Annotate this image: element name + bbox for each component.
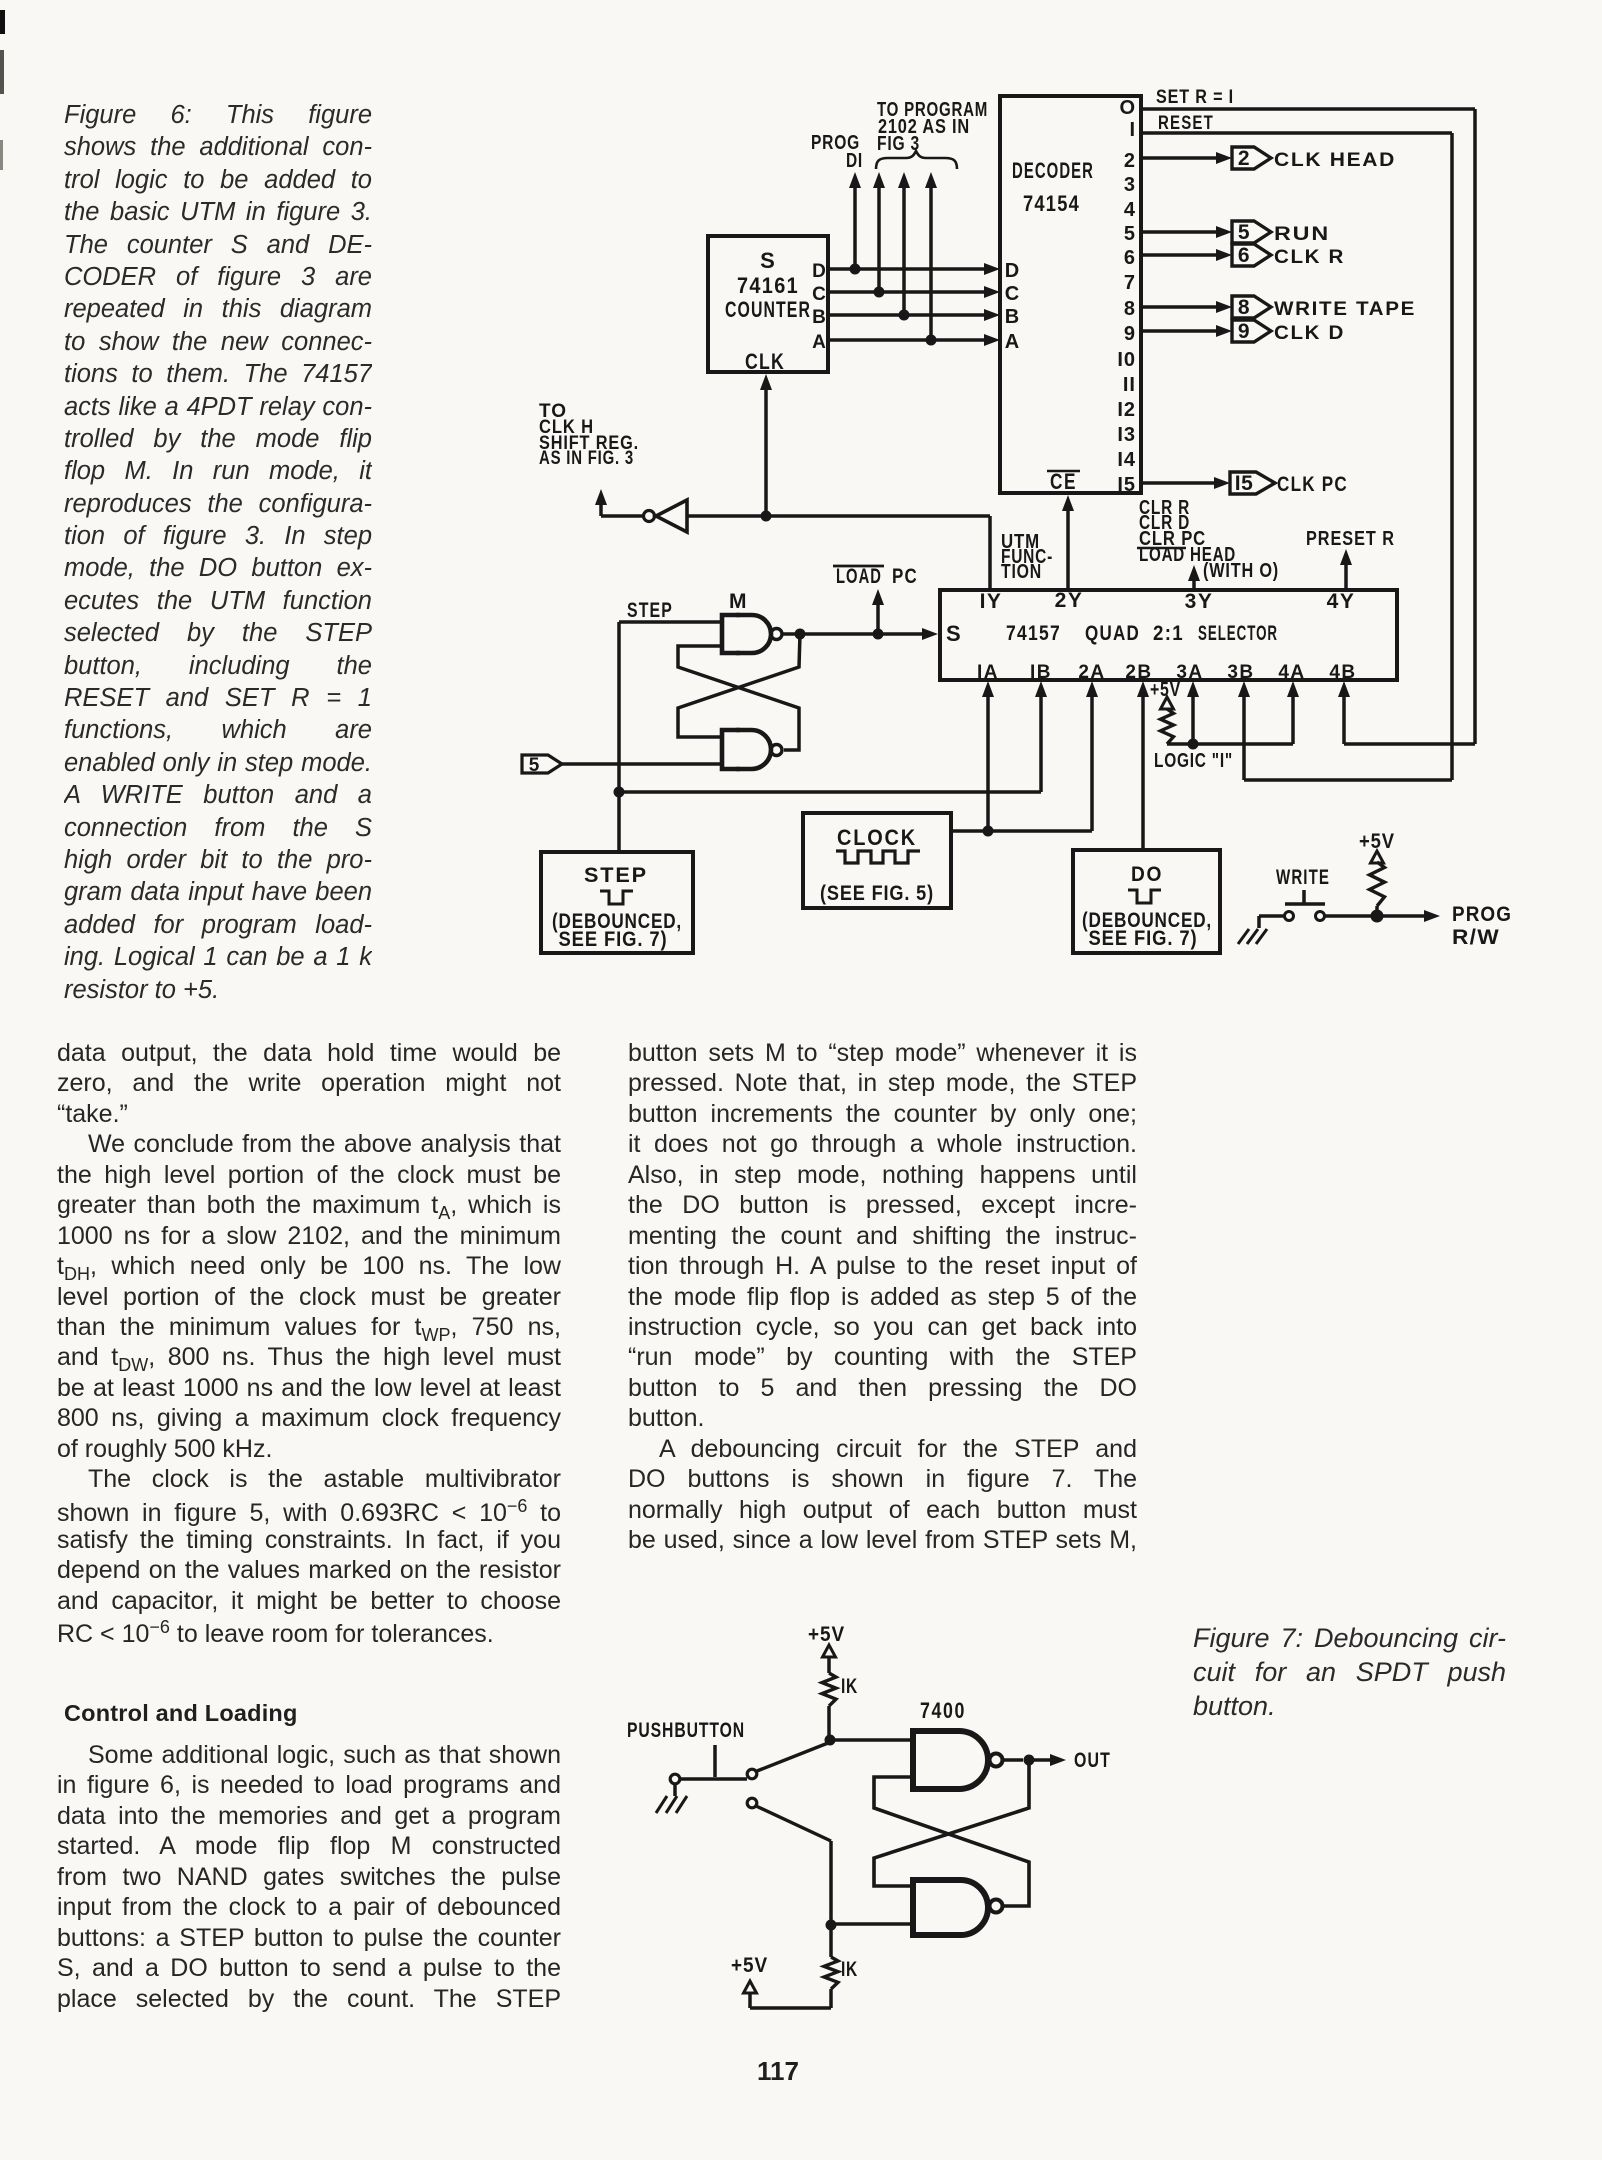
svg-text:I4: I4 <box>1117 449 1136 471</box>
svg-text:D: D <box>812 261 826 282</box>
svg-text:3B: 3B <box>1227 662 1254 683</box>
svg-text:+5V: +5V <box>731 1954 768 1977</box>
svg-text:M: M <box>729 590 747 613</box>
svg-text:7400: 7400 <box>920 1698 966 1723</box>
svg-text:2:1: 2:1 <box>1153 622 1184 645</box>
svg-text:IK: IK <box>841 1958 858 1981</box>
svg-text:(WITH O): (WITH O) <box>1203 560 1279 582</box>
svg-text:IB: IB <box>1030 662 1052 683</box>
svg-text:RUN: RUN <box>1274 224 1330 245</box>
svg-text:2Y: 2Y <box>1055 589 1084 612</box>
svg-text:SEE FIG. 7): SEE FIG. 7) <box>1089 927 1198 950</box>
svg-text:74161: 74161 <box>737 273 799 298</box>
svg-text:O: O <box>1119 97 1136 119</box>
svg-text:6: 6 <box>1124 247 1136 269</box>
svg-text:IK: IK <box>841 1675 858 1698</box>
svg-text:+5V: +5V <box>808 1623 845 1646</box>
svg-text:4A: 4A <box>1278 662 1305 683</box>
svg-text:A: A <box>812 332 826 353</box>
svg-text:I2: I2 <box>1117 399 1136 421</box>
svg-text:CLK R: CLK R <box>1274 247 1345 268</box>
svg-text:8: 8 <box>1124 298 1136 320</box>
svg-text:STEP: STEP <box>584 864 648 887</box>
svg-text:4: 4 <box>1124 199 1136 221</box>
svg-text:WRITE: WRITE <box>1276 866 1330 889</box>
svg-text:LOAD: LOAD <box>836 565 882 588</box>
svg-text:7: 7 <box>1124 272 1136 294</box>
svg-text:CE: CE <box>1050 469 1077 494</box>
svg-text:C: C <box>812 284 826 305</box>
svg-text:(SEE FIG. 5): (SEE FIG. 5) <box>820 882 934 905</box>
svg-text:I3: I3 <box>1117 424 1136 446</box>
svg-text:3Y: 3Y <box>1185 590 1214 613</box>
svg-text:CLOCK: CLOCK <box>837 825 917 850</box>
svg-text:DO: DO <box>1131 863 1163 886</box>
svg-text:PROG: PROG <box>1452 903 1512 926</box>
svg-text:8: 8 <box>1238 296 1250 319</box>
svg-text:IY: IY <box>980 590 1003 613</box>
svg-text:A: A <box>1005 331 1019 353</box>
svg-text:74154: 74154 <box>1023 191 1080 216</box>
svg-text:I5: I5 <box>1235 472 1254 495</box>
svg-text:2: 2 <box>1124 150 1136 172</box>
svg-text:QUAD: QUAD <box>1085 622 1140 645</box>
svg-text:6: 6 <box>1238 244 1250 267</box>
svg-text:LOGIC "I": LOGIC "I" <box>1154 750 1233 772</box>
svg-text:2B: 2B <box>1125 662 1152 683</box>
svg-text:PRESET R: PRESET R <box>1306 528 1395 550</box>
svg-text:OUT: OUT <box>1074 1749 1111 1772</box>
svg-text:COUNTER: COUNTER <box>725 297 811 322</box>
svg-text:+5V: +5V <box>1150 679 1181 701</box>
svg-text:STEP: STEP <box>627 599 673 622</box>
svg-text:CLK D: CLK D <box>1274 323 1345 344</box>
svg-text:I0: I0 <box>1117 349 1136 371</box>
svg-text:I5: I5 <box>1117 474 1136 496</box>
svg-text:R/W: R/W <box>1452 926 1500 949</box>
svg-text:S: S <box>946 621 961 646</box>
svg-text:IA: IA <box>977 662 999 683</box>
svg-text:SELECTOR: SELECTOR <box>1198 622 1278 645</box>
svg-text:S: S <box>760 248 776 273</box>
svg-text:5: 5 <box>1124 223 1136 245</box>
svg-text:II: II <box>1123 374 1136 396</box>
svg-text:74157: 74157 <box>1006 622 1061 645</box>
svg-text:SET R = I: SET R = I <box>1156 87 1234 108</box>
svg-text:RESET: RESET <box>1158 113 1214 134</box>
svg-text:AS IN FIG. 3: AS IN FIG. 3 <box>539 448 634 469</box>
svg-text:2: 2 <box>1238 147 1250 170</box>
svg-text:I: I <box>1129 119 1136 141</box>
svg-text:DECODER: DECODER <box>1012 158 1094 183</box>
svg-text:DI: DI <box>846 150 863 172</box>
svg-text:SEE FIG. 7): SEE FIG. 7) <box>559 928 668 951</box>
svg-text:B: B <box>1005 306 1019 328</box>
svg-text:PUSHBUTTON: PUSHBUTTON <box>627 1719 745 1742</box>
svg-text:PC: PC <box>892 565 918 588</box>
svg-text:CLK: CLK <box>745 349 785 374</box>
svg-text:9: 9 <box>1124 323 1136 345</box>
svg-text:5: 5 <box>529 755 540 776</box>
svg-text:CLK PC: CLK PC <box>1277 473 1348 496</box>
svg-text:B: B <box>812 307 826 328</box>
svg-text:4B: 4B <box>1329 662 1356 683</box>
svg-text:D: D <box>1005 260 1019 282</box>
svg-text:4Y: 4Y <box>1327 590 1356 613</box>
svg-text:2A: 2A <box>1078 662 1105 683</box>
svg-text:9: 9 <box>1238 320 1250 343</box>
svg-text:FIG 3: FIG 3 <box>877 133 920 155</box>
svg-text:C: C <box>1005 283 1019 305</box>
svg-text:CLK HEAD: CLK HEAD <box>1274 150 1396 171</box>
svg-text:WRITE TAPE: WRITE TAPE <box>1274 299 1416 320</box>
svg-text:5: 5 <box>1238 221 1250 244</box>
svg-text:3: 3 <box>1124 174 1136 196</box>
svg-text:TION: TION <box>1001 561 1042 583</box>
